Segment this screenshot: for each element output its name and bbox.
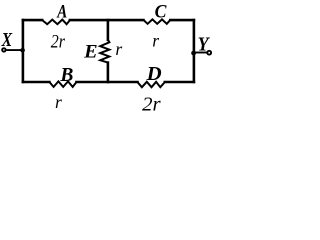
svg-text:E: E xyxy=(83,41,98,62)
svg-text:D: D xyxy=(146,63,162,85)
svg-text:X: X xyxy=(1,29,13,51)
wire left vertical xyxy=(22,20,25,82)
svg-text:2r: 2r xyxy=(51,31,66,52)
resistor D zigzag xyxy=(138,82,165,87)
resistor E zigzag (vertical) xyxy=(100,40,109,63)
svg-text:A: A xyxy=(57,2,68,23)
terminal X circle xyxy=(2,48,6,52)
wire top-right segment xyxy=(170,19,194,22)
wire top-middle segment xyxy=(70,19,143,22)
svg-text:r: r xyxy=(115,39,122,59)
junction dot at X node xyxy=(20,48,25,53)
wire bottom-left segment xyxy=(23,81,50,84)
resistor A zigzag xyxy=(42,20,70,25)
svg-text:r: r xyxy=(152,31,159,51)
svg-text:B: B xyxy=(59,64,73,86)
svg-text:2r: 2r xyxy=(142,95,161,116)
wire right vertical xyxy=(193,20,196,82)
resistor B zigzag xyxy=(49,81,76,87)
svg-text:Y: Y xyxy=(198,34,211,55)
wire middle vertical upper xyxy=(107,20,110,40)
wire bottom-right segment xyxy=(165,81,194,84)
terminal Y lead wire xyxy=(194,52,207,54)
junction dot at Y node xyxy=(191,51,196,56)
svg-text:r: r xyxy=(55,92,62,112)
terminal Y circle xyxy=(207,51,211,55)
resistor C zigzag xyxy=(143,19,170,23)
wire bottom-middle segment xyxy=(77,81,138,84)
wire middle vertical lower xyxy=(107,63,110,82)
svg-text:C: C xyxy=(155,2,167,23)
wire top-left segment xyxy=(23,19,42,22)
terminal X lead wire xyxy=(6,49,23,51)
